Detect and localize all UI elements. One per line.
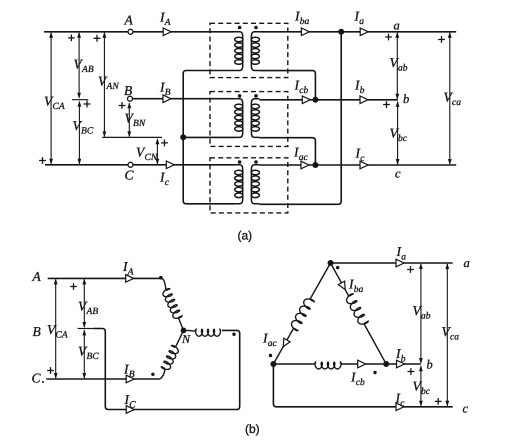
voltage arrow V_CA	[50, 33, 52, 164]
wire line B (middle phase)	[133, 98, 235, 100]
polarity dot coil cb	[373, 371, 376, 374]
svg-text:a: a	[394, 19, 400, 33]
wye coil B (C to N)	[161, 345, 178, 369]
plus sign V_ab bottom	[383, 101, 390, 108]
junction dot line a	[338, 29, 344, 35]
voltage arrow V_ab	[396, 33, 398, 99]
delta vertex dot b	[383, 361, 389, 367]
current arrow I_cb	[358, 360, 366, 368]
svg-text:c: c	[395, 167, 401, 181]
node C terminal circle	[128, 162, 133, 167]
current arrow I_b (delta)	[397, 360, 405, 368]
wire N dot to horizontal coil	[184, 329, 197, 332]
delta vertex dot c	[270, 361, 276, 367]
transformer T1 secondary polarity dot	[254, 26, 258, 30]
current arrow I_B (wye)	[126, 375, 134, 383]
svg-text:B: B	[124, 83, 132, 98]
current arrow I_cb	[302, 96, 310, 104]
current arrow I_A (wye)	[126, 275, 134, 283]
wye: wire line A	[48, 277, 163, 279]
svg-text:b: b	[403, 92, 409, 106]
voltage arrow V_BN	[128, 103, 130, 136]
transformer T2 dashed enclosure	[210, 92, 288, 147]
wire T2 secondary bottom to line c (delta link)	[259, 138, 315, 165]
polarity dot coil ac	[269, 354, 272, 357]
svg-text:B: B	[33, 324, 41, 339]
transformer T2 primary coil (left winding)	[235, 99, 243, 138]
current arrow I_C (wye)	[126, 406, 134, 414]
wire T3 secondary bottom to line a (delta link)	[259, 32, 341, 205]
current arrow I_ba	[338, 281, 345, 289]
svg-text:(a): (a)	[238, 229, 253, 243]
transformer T3 secondary coil (right winding)	[251, 165, 259, 204]
transformer T3 dashed enclosure	[210, 158, 288, 213]
wire T1 secondary bottom to line b (delta link)	[259, 71, 315, 100]
wire secondary line c	[259, 164, 456, 166]
svg-text:C: C	[32, 371, 42, 386]
wye: wire from C with I_B	[46, 378, 160, 380]
junction dot line c (ac link)	[312, 162, 318, 168]
plus sign for V_CA (bottom left)	[39, 157, 46, 164]
plus sign V_bc top (delta)	[408, 368, 415, 375]
tick at B potential (wye)	[78, 328, 94, 330]
voltage arrow V_ab (delta)	[420, 264, 422, 363]
current arrow I_C	[166, 161, 174, 169]
voltage arrow V_AN	[103, 33, 105, 137]
transformer T3 primary coil (left winding)	[235, 165, 243, 204]
wire secondary line b	[259, 99, 398, 101]
delta side a-b (with coil ba)	[331, 263, 349, 296]
wire line b (delta out)	[386, 363, 421, 365]
current arrow I_ac	[301, 161, 309, 169]
tick at B potential between V_AB and V_BC	[72, 99, 88, 101]
delta bottom side c-b (with coil cb)	[273, 363, 314, 365]
plus sign V_ca top	[438, 36, 445, 43]
wye horizontal coil (N winding)	[195, 329, 220, 336]
svg-text:b: b	[427, 358, 433, 372]
delta vertex dot a	[328, 260, 334, 266]
plus sign for V_CN	[161, 140, 168, 147]
current arrow I_a	[360, 28, 368, 36]
wire delta c leg and line c	[273, 364, 452, 407]
voltage arrow V_ca (delta)	[446, 264, 448, 406]
wire T2 primary bottom to neutral	[183, 136, 235, 138]
polarity dot coil B	[151, 373, 154, 376]
svg-text:a: a	[464, 256, 470, 270]
neutral reference wire N (for V_AN, V_BN, V_CN)	[102, 136, 162, 138]
transformer T1 secondary coil (right winding)	[251, 32, 259, 71]
voltage arrow V_BC	[78, 102, 80, 164]
wye: wire B tick to I_C line to third coil	[94, 329, 240, 410]
svg-text:c: c	[463, 401, 469, 415]
current arrow I_B	[163, 95, 171, 103]
current arrow I_ac	[283, 338, 290, 346]
plus sign V_AB (wye)	[70, 283, 77, 290]
transformer T2 secondary coil (right winding)	[251, 99, 259, 138]
wye neutral bus wire (left coil bottoms T1-T3)	[183, 71, 235, 204]
current arrow I_c	[360, 161, 368, 169]
plus sign for V_BC (below tick)	[84, 101, 91, 108]
transformer T2 secondary polarity dot	[254, 94, 258, 98]
junction dot line b (cb link)	[312, 97, 318, 103]
node A terminal circle	[128, 29, 133, 34]
wire line A (top phase)	[44, 31, 235, 33]
delta side a-c (with coil ac)	[310, 263, 331, 299]
voltage arrow V_BC (wye)	[83, 330, 85, 378]
plus sign for V_AN (top)	[94, 35, 101, 42]
wire line a (delta out)	[331, 262, 453, 264]
voltage arrow V_CA (wye)	[55, 279, 57, 378]
junction dot neutral N	[180, 134, 186, 140]
transformer T3 primary polarity dot	[238, 160, 242, 164]
current arrow I_b	[360, 96, 368, 104]
polarity dot coil A	[159, 276, 163, 280]
voltage arrow V_bc (delta)	[420, 366, 422, 406]
voltage arrow V_ca	[449, 33, 451, 164]
polarity dot coil ba	[336, 266, 339, 269]
wire line C (bottom phase)	[45, 164, 235, 166]
voltage arrow V_AB (wye)	[83, 279, 85, 327]
wire secondary line a	[259, 31, 456, 33]
svg-text:A: A	[124, 13, 134, 28]
voltage arrow V_bc	[397, 102, 399, 164]
transformer T1 primary coil (left winding)	[235, 32, 243, 71]
plus sign V_ab top (delta)	[407, 266, 414, 273]
transformer T1 primary polarity dot	[238, 26, 242, 30]
transformer T1 dashed enclosure	[210, 23, 288, 77]
voltage arrow V_CN	[156, 139, 158, 164]
transformer T3 secondary polarity dot	[254, 160, 258, 164]
plus sign for V_AB (top)	[68, 35, 75, 42]
svg-text:C: C	[125, 168, 135, 183]
transformer T2 primary polarity dot	[238, 94, 242, 98]
small period after C	[42, 381, 44, 383]
current arrow I_A	[163, 28, 171, 36]
plus sign V_CA (wye)	[47, 367, 54, 374]
svg-text:A: A	[32, 269, 42, 284]
wye coil A (A to N)	[163, 289, 182, 319]
node B terminal circle	[128, 96, 133, 101]
plus sign V_ca bottom (delta)	[435, 398, 442, 405]
voltage arrow V_AB	[78, 33, 80, 98]
current arrow I_ba	[301, 28, 309, 36]
current arrow I_a (delta)	[396, 259, 404, 267]
plus sign V_ab top	[385, 34, 392, 41]
current arrow I_c (delta)	[396, 403, 404, 411]
polarity dot horizontal coil	[232, 333, 235, 336]
svg-text:(b): (b)	[245, 422, 260, 436]
svg-text:N: N	[181, 332, 191, 346]
junction dot N (wye)	[181, 328, 187, 334]
plus sign for V_BN	[119, 102, 126, 109]
